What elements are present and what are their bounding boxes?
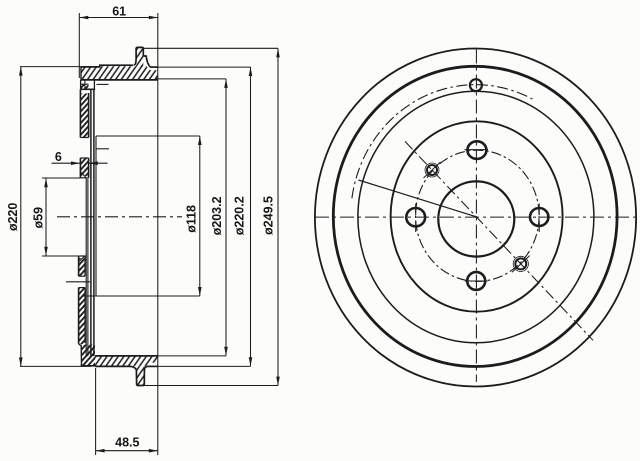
- svg-text:ø220: ø220: [6, 203, 20, 232]
- svg-text:61: 61: [112, 4, 126, 18]
- svg-text:ø118: ø118: [184, 205, 198, 233]
- svg-text:ø203.2: ø203.2: [210, 196, 224, 235]
- svg-text:ø249.5: ø249.5: [262, 196, 276, 235]
- svg-text:ø59: ø59: [32, 207, 46, 229]
- svg-text:6: 6: [55, 150, 62, 164]
- svg-text:48.5: 48.5: [115, 435, 139, 449]
- svg-text:ø220.2: ø220.2: [233, 196, 247, 235]
